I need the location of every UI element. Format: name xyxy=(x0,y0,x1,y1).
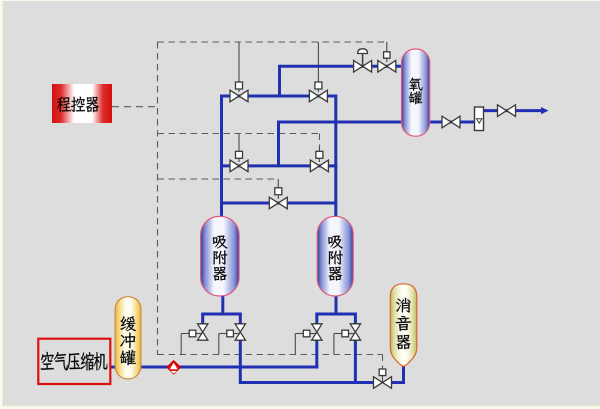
actuator: adsorber2 inlet square + link xyxy=(295,333,303,335)
pipe: rotameter outlet line xyxy=(484,109,543,112)
pipe: row2 header xyxy=(220,164,337,167)
label: 程控器 xyxy=(57,97,99,113)
valve: tank outlet manual xyxy=(442,116,460,128)
actuator: adsorber1 inlet square + link xyxy=(181,333,189,335)
control line: row2 horizontal xyxy=(158,133,320,135)
actuator stem: row3 equalization valve xyxy=(277,179,279,199)
valve: adsorber1 inlet (bottom left) xyxy=(196,333,203,335)
pipe: tank bottom feed line xyxy=(277,121,403,124)
pipe: adsorber2 inlet branch drop xyxy=(315,314,318,325)
pipe: left adsorber riser xyxy=(220,95,223,218)
pipe: right adsorber riser xyxy=(334,95,337,218)
box: program controller 程控器 xyxy=(52,84,112,123)
valve: row2 right (adsorber2 purge) xyxy=(310,160,328,172)
vessel: oxygen tank capsule xyxy=(402,49,430,136)
pipe: air inlet line from compressor xyxy=(110,366,318,369)
pipe: adsorber1 exhaust down xyxy=(239,339,242,384)
label: buffer tank 缓冲罐 xyxy=(120,316,136,365)
vessel: buffer tank capsule xyxy=(115,297,141,379)
pipe: adsorber2 bottom manifold xyxy=(315,313,357,316)
pipe: riser row1 to top line xyxy=(278,65,281,96)
control line: left vertical bus xyxy=(157,42,159,355)
vessel: muffler body xyxy=(390,284,417,366)
control line: horizontal from controller box xyxy=(112,106,158,108)
pipe: adsorber1 inlet branch drop xyxy=(201,314,204,325)
valve: adsorber2 inlet (bottom left) xyxy=(310,333,317,335)
label: oxygen tank 氧罐 xyxy=(409,78,423,105)
label: muffler 消音器 xyxy=(396,298,411,350)
valve: row3 equalization xyxy=(269,197,287,209)
box: air compressor outline xyxy=(38,339,110,384)
valve: row2 left (adsorber1 purge) xyxy=(230,160,248,172)
check valve: red diamond on inlet line xyxy=(167,361,180,374)
control line: drop to muffler valve xyxy=(382,355,384,370)
pipe: outlet arrowhead xyxy=(541,107,549,114)
actuator stem: row2 right valve xyxy=(318,147,320,162)
pipe: muffler connection elbow xyxy=(391,365,404,383)
control line: row2 right drop xyxy=(319,134,321,148)
pipe: row3 equalization line xyxy=(220,202,337,205)
pipe: adsorber1 bottom manifold xyxy=(201,313,242,316)
label: adsorber1 吸附器 xyxy=(213,236,228,281)
pipe: tank outlet to rotameter xyxy=(430,121,475,124)
actuator stem: row1 right valve xyxy=(317,42,319,92)
pipe: adsorber2 exhaust branch drop xyxy=(354,314,357,325)
valve: row1 right (adsorber2 product) xyxy=(309,90,327,102)
valve: tank inlet solenoid xyxy=(378,60,396,72)
valve: product outlet manual xyxy=(498,105,516,117)
valve: adsorber1 exhaust (bottom right) xyxy=(233,333,240,335)
control line: top horizontal bus xyxy=(158,41,388,43)
pipe: adsorber2 bottom stub xyxy=(335,294,338,316)
label: 空气压缩机 xyxy=(41,352,108,371)
control line: bottom horizontal bus xyxy=(158,354,383,356)
bottom dotted separator xyxy=(3,405,600,407)
control line: row3 horizontal xyxy=(158,178,279,180)
pipe: adsorber1 exhaust branch drop xyxy=(239,314,242,325)
pipe: exhaust header xyxy=(240,381,374,384)
pipe: riser row2 to tank bottom line xyxy=(277,122,280,166)
actuator: adsorber1 exhaust square + link xyxy=(219,333,227,335)
pipe: row1 product header xyxy=(220,95,337,98)
label: adsorber2 吸附器 xyxy=(328,236,343,281)
actuator stem: row2 left valve xyxy=(238,134,240,163)
valve: pressure regulator with dome xyxy=(354,60,372,72)
pipe: adsorber2 inlet down xyxy=(315,339,318,369)
actuator stem: row1 left valve xyxy=(238,42,240,92)
valve: row1 left (adsorber1 product) xyxy=(230,90,248,102)
valve: muffler exhaust valve xyxy=(382,376,384,383)
pipe: adsorber2 exhaust down xyxy=(354,339,357,383)
flow meter rotameter xyxy=(475,107,484,131)
vessel: adsorber 1 capsule xyxy=(201,216,240,296)
pipe: adsorber1 bottom stub xyxy=(221,294,224,316)
actuator: adsorber2 exhaust square + link xyxy=(334,333,342,335)
pipe: top line to oxygen tank xyxy=(280,65,404,68)
valve: adsorber2 exhaust (bottom right) xyxy=(349,333,356,335)
vessel: adsorber 2 capsule xyxy=(317,216,353,296)
actuator stem: tank solenoid valve xyxy=(386,42,388,62)
